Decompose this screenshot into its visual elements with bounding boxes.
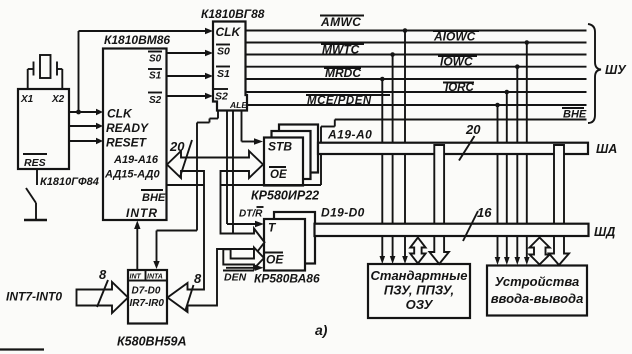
wire S0 CPU to controller	[167, 50, 214, 56]
wire crystal lead to X2	[61, 69, 63, 89]
node AIOWC to IO junction	[525, 40, 530, 45]
page artifact line bottom left	[0, 348, 44, 350]
svg-text:RES: RES	[24, 157, 46, 169]
svg-text:CLK: CLK	[107, 107, 133, 121]
svg-text:S2: S2	[149, 95, 162, 106]
svg-text:IR7-IR0: IR7-IR0	[130, 298, 165, 309]
svg-text:S1: S1	[149, 71, 162, 82]
svg-text:RESET: RESET	[106, 136, 148, 150]
wire PDEN drop to IO	[495, 105, 501, 265]
svg-text:ввода-вывода: ввода-вывода	[491, 291, 584, 306]
label BHE	[562, 108, 587, 121]
svg-text:AMWC: AMWC	[320, 15, 361, 29]
svg-text:INTR: INTR	[126, 206, 158, 220]
latch register stack КР580ИР22	[251, 125, 319, 203]
wire MRDC control line	[246, 78, 587, 80]
svg-text:S0: S0	[149, 54, 162, 65]
wire READY from generator to CPU	[69, 123, 103, 129]
svg-text:К580ВН59А: К580ВН59А	[117, 335, 187, 349]
wire INT from К580ВН59А to CPU INTR	[134, 221, 140, 271]
wire MRDC drop to memory	[380, 79, 386, 264]
wire DT/R to transceiver T	[227, 111, 264, 228]
label 20 with slash on CPU bus arrow	[169, 139, 192, 177]
memory block: standard ROM, PROM, RAM	[368, 264, 470, 318]
svg-text:S2: S2	[215, 91, 228, 103]
svg-text:INT7-INT0: INT7-INT0	[6, 290, 62, 304]
wire ALE to latch STB	[242, 111, 264, 145]
label MWTC	[321, 43, 364, 57]
svg-text:ШУ: ШУ	[605, 63, 627, 77]
svg-text:DEN: DEN	[224, 272, 247, 284]
input-output devices block	[487, 266, 587, 316]
wire AMWC control line	[246, 30, 587, 32]
svg-text:ВНЕ: ВНЕ	[563, 109, 587, 121]
svg-text:а): а)	[315, 322, 328, 338]
svg-text:К1810ВМ86: К1810ВМ86	[104, 33, 170, 47]
wire S2 CPU to controller	[167, 93, 214, 99]
svg-text:X2: X2	[51, 94, 65, 105]
svg-text:S1: S1	[217, 68, 230, 80]
svg-text:OE: OE	[270, 169, 287, 181]
RES push-button switch to ground	[24, 169, 47, 220]
wire CLK riser to bus controller	[78, 31, 80, 112]
wide address arm from ША into memory block	[430, 145, 449, 264]
node MRDC to memory junction	[380, 77, 385, 82]
svg-text:ШД: ШД	[594, 225, 615, 239]
wire RESET from generator to CPU	[69, 138, 103, 144]
svg-text:MCE/PDEN: MCE/PDEN	[307, 95, 372, 107]
svg-text:ОЗУ: ОЗУ	[406, 297, 434, 312]
svg-text:INT: INT	[130, 274, 142, 281]
svg-text:D19-D0: D19-D0	[321, 206, 365, 220]
crystal X1-X2 quartz resonator	[28, 55, 63, 78]
svg-text:КР580ИР22: КР580ИР22	[251, 189, 319, 203]
wide bus arrow into transceiver (lower, L-shaped)	[223, 248, 264, 269]
svg-text:ALE: ALE	[229, 100, 247, 110]
label 8 with slash on interrupt data arm	[186, 271, 203, 310]
wide address arm from ША into IO block	[549, 145, 569, 265]
wire CLK from generator to CPU	[69, 109, 103, 115]
svg-text:CLK: CLK	[216, 25, 242, 39]
svg-text:READY: READY	[106, 121, 149, 135]
bus controller К1810ВГ88	[201, 7, 265, 111]
wide arrow INT7-INT0 into interrupt controller	[77, 282, 129, 313]
svg-text:20: 20	[169, 139, 185, 154]
bus transceiver stack КР580ВА86	[254, 212, 320, 286]
wide bidirectional data arrow ШД to memory	[410, 238, 425, 264]
wire crystal lead to X1	[27, 69, 29, 89]
svg-text:8: 8	[99, 267, 107, 282]
wire AIOWC control line	[246, 42, 587, 44]
wire INTA from controller to К580ВН59А	[153, 111, 218, 270]
wire MCE/PDEN control line	[248, 104, 587, 106]
svg-text:КР580ВА86: КР580ВА86	[254, 272, 320, 286]
node IORC to IO junction	[505, 90, 510, 95]
svg-text:8: 8	[194, 271, 202, 286]
wire MWTC control line	[246, 54, 587, 56]
label 8 with slash on INT7-INT0 arrow	[97, 267, 108, 307]
wire DEN to transceiver OE	[226, 111, 264, 272]
svg-text:Стандартные: Стандартные	[371, 268, 468, 283]
label DT/R	[239, 207, 264, 220]
wide bus: CPU address/data arrow, vertical shaft, arm to interrupt controller	[167, 151, 265, 312]
svg-text:20: 20	[465, 122, 481, 137]
label MCE/PDEN	[306, 95, 390, 107]
node MWTC to memory junction	[390, 52, 395, 57]
svg-text:Устройства: Устройства	[495, 274, 579, 289]
svg-text:STB: STB	[268, 140, 292, 154]
wire BHE control line	[335, 119, 587, 121]
svg-text:К1810ГФ84: К1810ГФ84	[40, 176, 99, 188]
wide bidirectional data arrow ШД to IO	[530, 238, 550, 265]
svg-text:S0: S0	[217, 46, 230, 58]
label AIOWC	[433, 30, 479, 44]
node AMWC to memory junction	[403, 28, 408, 33]
control bus brace ШУ	[588, 24, 627, 123]
CPU К1810ВМ86	[103, 33, 170, 220]
svg-text:К1810ВГ88: К1810ВГ88	[201, 7, 265, 21]
node PDEN to IO junction	[495, 103, 500, 108]
label IOWC	[438, 55, 477, 69]
svg-text:ША: ША	[596, 142, 617, 156]
label 20 with slash on ША	[459, 122, 481, 161]
wire AIOWC drop to IO	[524, 43, 530, 266]
wire MWTC drop to memory	[390, 55, 396, 265]
wire CLK to К1810ВГ88	[79, 28, 214, 34]
wire IOWC control line	[246, 66, 587, 68]
label DEN	[223, 271, 254, 284]
svg-text:ПЗУ, ППЗУ,: ПЗУ, ППЗУ,	[384, 283, 454, 298]
data bus band ШД	[315, 224, 589, 236]
svg-text:А19-А0: А19-А0	[327, 128, 372, 142]
label MRDC	[324, 66, 361, 80]
svg-text:АД15-АД0: АД15-АД0	[104, 169, 160, 181]
interrupt controller К580ВН59А	[117, 270, 187, 349]
svg-text:INTA: INTA	[147, 274, 163, 281]
svg-text:D7-D0: D7-D0	[132, 286, 161, 297]
wire IORC drop to IO	[504, 92, 510, 265]
wire IOWC drop to IO	[515, 67, 521, 265]
address bus band ША	[318, 143, 588, 154]
wire AMWC drop to memory	[402, 31, 408, 265]
svg-text:ВНЕ: ВНЕ	[142, 192, 166, 204]
svg-text:IORC: IORC	[445, 82, 474, 94]
label AMWC	[320, 15, 364, 29]
node IOWC to IO junction	[515, 64, 520, 69]
wire IORC control line	[246, 91, 587, 93]
svg-text:A19-A16: A19-A16	[113, 154, 159, 166]
node CLK junction	[76, 110, 81, 115]
svg-text:OE: OE	[266, 253, 284, 267]
label IORC	[443, 82, 474, 94]
wire S1 CPU to controller	[167, 73, 214, 79]
svg-text:16: 16	[477, 205, 492, 220]
svg-text:X1: X1	[20, 94, 34, 105]
clock generator К1810ГФ84	[18, 89, 99, 188]
wire BHE from CPU to control bus	[167, 120, 335, 186]
label 16 with slash on ШД	[463, 205, 492, 241]
svg-text:DT/R: DT/R	[239, 209, 263, 220]
